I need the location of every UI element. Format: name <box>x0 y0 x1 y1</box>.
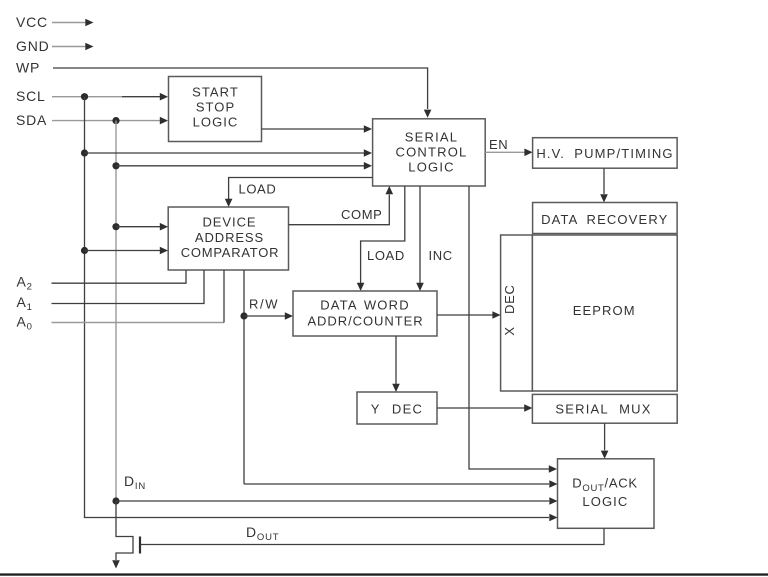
node DIN junction <box>112 497 119 504</box>
wire serial mux to dout ack logic <box>601 423 609 459</box>
label INC <box>429 248 453 263</box>
block HV PUMP TIMING <box>533 138 678 169</box>
wire SDA to serial control logic <box>116 162 372 170</box>
label A2 <box>17 274 33 293</box>
wire A1 to comparator <box>52 270 205 304</box>
label A0 <box>17 314 33 333</box>
node SDA to serial junction <box>112 162 119 169</box>
svg-text:COMPARATOR: COMPARATOR <box>181 245 280 260</box>
wire start stop logic to serial control logic <box>262 125 373 133</box>
block DATA RECOVERY <box>533 203 678 234</box>
pin label SCL <box>16 88 46 104</box>
wire LOAD serial control to data word counter <box>357 186 405 291</box>
wire DOUT from transistor gate to dout ack logic <box>141 528 604 544</box>
svg-text:START: START <box>192 85 239 100</box>
label DIN <box>124 473 146 492</box>
svg-text:INC: INC <box>429 248 453 263</box>
wire SCL to start stop logic <box>52 93 168 101</box>
transistor Q1 gate bar <box>139 537 141 554</box>
block SERIAL MUX <box>532 394 677 423</box>
svg-text:EEPROM: EEPROM <box>573 303 636 318</box>
wire RW comparator down <box>243 270 245 484</box>
svg-text:LOAD: LOAD <box>239 181 277 196</box>
svg-text:H.V. PUMP/TIMING: H.V. PUMP/TIMING <box>536 146 673 161</box>
block DOUT ACK LOGIC <box>558 459 655 529</box>
svg-text:EN: EN <box>489 137 508 152</box>
wire VCC arrow <box>52 19 94 27</box>
node RW junction <box>240 312 247 319</box>
wire SCL to comparator <box>85 247 169 255</box>
block SERIAL CONTROL LOGIC <box>373 119 486 186</box>
svg-text:R/W: R/W <box>249 297 279 312</box>
svg-text:GND: GND <box>16 38 50 54</box>
wire SCL vertical bus <box>84 97 86 518</box>
svg-text:SERIAL: SERIAL <box>405 130 458 145</box>
label EN <box>489 137 508 152</box>
node SCL to comparator junction <box>81 247 88 254</box>
label COMP <box>341 207 382 222</box>
svg-text:LOGIC: LOGIC <box>582 494 628 509</box>
svg-text:CONTROL: CONTROL <box>396 145 468 160</box>
wire A2 to comparator <box>52 270 187 283</box>
svg-text:SCL: SCL <box>16 88 46 104</box>
pin label SDA <box>16 112 47 128</box>
wire SCL to serial control logic <box>85 149 373 157</box>
pin label GND <box>16 38 50 54</box>
wire RW to data word counter <box>244 312 293 320</box>
svg-text:DATA WORD: DATA WORD <box>320 298 410 313</box>
svg-text:LOGIC: LOGIC <box>408 159 454 174</box>
wire INC serial control to data word counter <box>416 186 424 291</box>
svg-text:LOAD: LOAD <box>367 248 405 263</box>
block START STOP LOGIC <box>169 77 262 142</box>
svg-text:SERIAL MUX: SERIAL MUX <box>555 401 651 416</box>
wire data word counter to y dec <box>392 336 400 392</box>
svg-text:STOP: STOP <box>196 100 235 115</box>
wire data word counter to x dec <box>437 311 501 319</box>
block X DEC <box>501 235 533 391</box>
wire A0 to comparator <box>52 270 225 323</box>
block EEPROM <box>532 235 677 391</box>
wire DIN to dout ack logic <box>116 497 558 505</box>
svg-text:X DEC: X DEC <box>502 284 517 335</box>
wire SDA vertical bus <box>115 121 117 501</box>
wire y dec to serial mux <box>437 404 532 412</box>
wire hv pump to data recovery <box>600 168 608 202</box>
svg-text:ADDRESS: ADDRESS <box>195 230 264 245</box>
node SDA junction <box>112 117 119 124</box>
block DATA WORD ADDR COUNTER <box>293 291 437 336</box>
label DOUT <box>246 524 279 543</box>
label LOAD upper <box>239 181 277 196</box>
label A1 <box>17 294 33 313</box>
svg-text:VCC: VCC <box>16 14 48 30</box>
wire SDA to output transistor drain <box>116 501 133 560</box>
svg-text:DEVICE: DEVICE <box>202 215 256 230</box>
wire WP to serial control logic top <box>53 68 431 118</box>
wire LOAD from serial control to device address comparator <box>225 178 373 208</box>
output transistor ground arrow <box>112 560 120 568</box>
block Y DEC <box>357 392 437 424</box>
svg-text:Y DEC: Y DEC <box>371 401 424 416</box>
node SDA to comparator junction <box>112 223 119 230</box>
svg-text:COMP: COMP <box>341 207 382 222</box>
label LOAD lower <box>367 248 405 263</box>
svg-text:LOGIC: LOGIC <box>193 115 239 130</box>
wire SCL bus to dout ack logic <box>85 514 558 522</box>
wire SDA to comparator <box>116 223 168 231</box>
svg-text:ADDR/COUNTER: ADDR/COUNTER <box>307 313 423 328</box>
label R/W <box>249 297 279 312</box>
wire COMP comparator to serial control logic <box>289 186 394 225</box>
wire RW to dout ack logic <box>244 480 558 488</box>
wire GND arrow <box>52 43 94 51</box>
wire serial control to dout ack logic <box>469 186 557 473</box>
svg-text:WP: WP <box>16 60 40 76</box>
pin label WP <box>16 60 40 76</box>
svg-text:SDA: SDA <box>16 112 47 128</box>
node SCL junction <box>81 93 88 100</box>
block DEVICE ADDRESS COMPARATOR <box>168 207 288 270</box>
pin label VCC <box>16 14 48 30</box>
wire SDA to start stop logic <box>52 117 168 125</box>
svg-text:DATA RECOVERY: DATA RECOVERY <box>541 212 668 227</box>
wire EN serial control to hv pump <box>485 149 532 157</box>
bottom border line <box>0 573 768 575</box>
node SCL to serial junction <box>81 149 88 156</box>
